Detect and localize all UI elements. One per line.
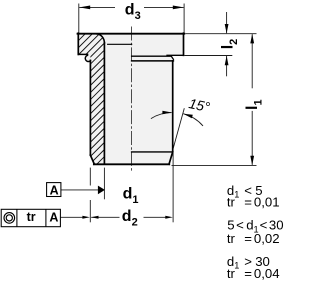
svg-text:tr: tr	[227, 231, 236, 246]
svg-text:0,02: 0,02	[254, 231, 280, 246]
svg-text:tr: tr	[227, 266, 236, 281]
svg-text:d1: d1	[123, 185, 139, 206]
svg-text:tr: tr	[27, 210, 36, 224]
svg-text:0,04: 0,04	[254, 266, 280, 281]
svg-text:=: =	[244, 266, 252, 281]
svg-text:0,01: 0,01	[254, 195, 280, 210]
svg-text:A: A	[50, 183, 59, 197]
svg-text:=: =	[244, 231, 252, 246]
svg-text:A: A	[49, 211, 58, 225]
svg-text:15°: 15°	[187, 95, 211, 115]
svg-text:l2: l2	[219, 39, 240, 50]
svg-text:<: <	[236, 218, 244, 233]
svg-text:tr: tr	[227, 195, 236, 210]
svg-text:d2: d2	[122, 208, 138, 229]
svg-text:l1: l1	[244, 99, 265, 110]
svg-text:=: =	[244, 195, 252, 210]
svg-text:d3: d3	[125, 1, 141, 22]
